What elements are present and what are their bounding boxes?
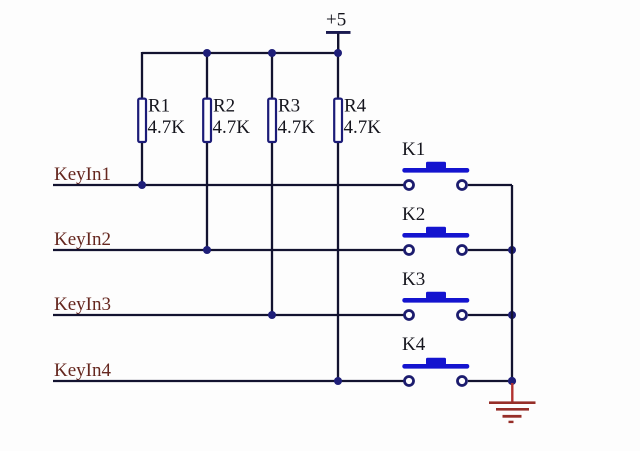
svg-text:4.7K: 4.7K [344,117,382,138]
wire R2 column upper [206,53,208,98]
svg-text:R3: R3 [278,96,300,117]
power bar symbol [326,31,351,34]
svg-text:R1: R1 [148,96,170,117]
wire KeyIn2 [53,249,404,251]
svg-text:+5: +5 [326,10,346,31]
power stem wire [337,34,339,54]
node on rail at R4 / +5 [334,49,342,57]
wire R3 column upper [271,53,273,98]
wire K2 to bus [468,249,512,251]
wire K1 to bus [468,184,512,186]
svg-text:4.7K: 4.7K [278,117,316,138]
switch K2 [402,204,469,255]
switch K3 [402,269,469,320]
node on rail at R2 [203,49,211,57]
node KeyIn2 at R2 [203,246,211,254]
svg-text:R2: R2 [213,96,235,117]
svg-text:K4: K4 [402,334,426,355]
svg-text:KeyIn4: KeyIn4 [54,360,111,381]
node on rail at R3 [268,49,276,57]
node bus K2 [508,246,516,254]
svg-text:K2: K2 [402,204,425,225]
svg-text:KeyIn1: KeyIn1 [54,164,111,185]
wire R4 column lower [337,143,339,381]
svg-text:KeyIn2: KeyIn2 [54,229,111,250]
node KeyIn3 at R3 [268,311,276,319]
wire R4 column upper [337,53,339,98]
wire K4 to bus [468,380,512,382]
resistor R4 [334,96,381,143]
resistor R1 [138,96,185,143]
switch K1 [402,139,469,190]
node KeyIn1 at R1 [138,181,146,189]
svg-text:K3: K3 [402,269,425,290]
svg-text:4.7K: 4.7K [148,117,186,138]
wire R1 column lower [141,143,143,185]
node KeyIn4 at R4 [334,377,342,385]
switch K4 [402,334,469,386]
node bus K3 [508,311,516,319]
wire K3 to bus [468,314,512,316]
resistor R2 [203,96,250,143]
wire KeyIn3 [53,314,404,316]
resistor R3 [268,96,315,143]
wire top rail [142,52,338,54]
ground [489,383,536,423]
svg-text:R4: R4 [344,96,367,117]
wire R2 column lower [206,143,208,250]
wire KeyIn4 [53,380,404,382]
node ground junction [508,377,516,385]
wire right bus [511,185,513,381]
wire KeyIn1 [53,184,404,186]
svg-text:K1: K1 [402,139,425,160]
wire R1 column upper [141,52,143,98]
wire R3 column lower [271,143,273,315]
svg-text:4.7K: 4.7K [213,117,251,138]
svg-text:KeyIn3: KeyIn3 [54,294,111,315]
